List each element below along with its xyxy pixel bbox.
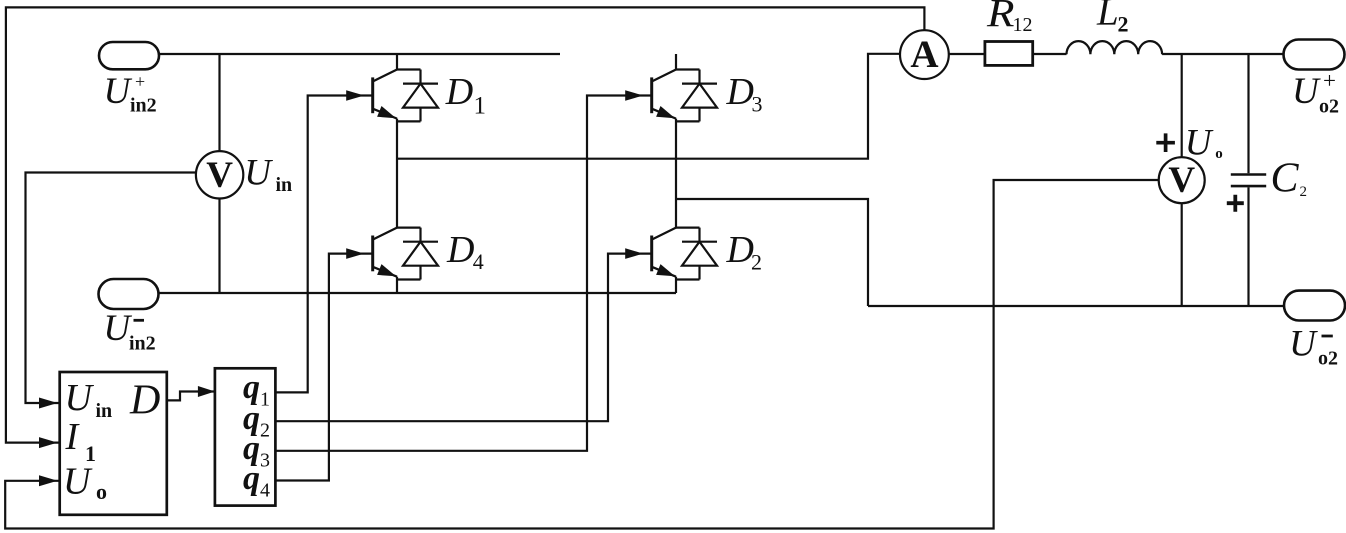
svg-text:o2: o2 <box>1319 96 1339 118</box>
svg-text:U: U <box>1289 324 1318 365</box>
arrow D input <box>198 386 215 397</box>
svg-text:in2: in2 <box>129 333 156 355</box>
svg-text:V: V <box>1168 160 1195 201</box>
wire D to PWM block <box>167 392 215 401</box>
label D3 <box>726 71 763 117</box>
wire voltmeter Uin tap lower <box>218 199 220 294</box>
svg-text:in: in <box>276 174 293 196</box>
wire voltmeter Uo tap upper <box>1181 54 1183 157</box>
inductor L2 <box>1067 41 1163 54</box>
resistor R12 <box>985 42 1033 66</box>
label U_in <box>244 153 292 196</box>
svg-text:4: 4 <box>260 479 270 501</box>
svg-text:U: U <box>1185 123 1214 164</box>
wire q1 to Q1 base <box>275 96 372 393</box>
svg-text:in2: in2 <box>130 95 157 117</box>
arrow q3 base <box>625 90 643 101</box>
capacitor C2 <box>1231 54 1266 306</box>
transistor Q3 <box>652 70 676 119</box>
wire right leg bottom <box>675 277 677 293</box>
svg-text:o2: o2 <box>1318 348 1338 370</box>
arrow q1 base <box>346 90 364 101</box>
arrow U_in input <box>39 398 58 409</box>
terminal U-o2 <box>1284 291 1345 321</box>
terminal U-in2 <box>99 279 159 309</box>
svg-text:12: 12 <box>1013 14 1033 36</box>
label plus capacitor <box>1227 195 1244 212</box>
svg-text:R: R <box>986 0 1015 35</box>
label q1 <box>243 369 270 411</box>
svg-text:U: U <box>63 460 93 502</box>
svg-text:2: 2 <box>260 419 270 441</box>
wire I1 feedback <box>6 7 925 442</box>
label D2 <box>726 229 763 274</box>
label U_o2+ <box>1292 68 1339 118</box>
svg-text:2: 2 <box>751 250 762 275</box>
wire q3 to Q3 base <box>275 96 651 451</box>
svg-text:V: V <box>206 155 233 196</box>
svg-text:U: U <box>1292 71 1321 112</box>
wire bridge lower output <box>676 199 868 306</box>
terminal U+o2 <box>1284 40 1345 70</box>
label U_o controller <box>63 460 107 504</box>
transistor Q1 <box>373 70 397 119</box>
wire q4 to Q4 base <box>275 254 372 481</box>
svg-text:A: A <box>910 33 938 76</box>
PWM block <box>215 368 276 505</box>
label U_in2+ <box>104 71 157 117</box>
svg-text:3: 3 <box>260 449 270 471</box>
label q4 <box>243 460 270 502</box>
diode D2 <box>676 228 717 280</box>
wire left leg bottom <box>396 277 398 293</box>
wire bottom rail <box>159 292 677 294</box>
label U_o2- <box>1289 324 1338 370</box>
svg-text:D: D <box>726 71 754 113</box>
label C_2 <box>1271 156 1308 202</box>
voltmeter V U_o <box>1159 157 1205 203</box>
svg-text:in: in <box>96 400 113 422</box>
svg-text:U: U <box>244 153 273 194</box>
label R_12 <box>986 0 1033 36</box>
wire voltmeter Uin tap upper <box>218 54 220 151</box>
label q2 <box>243 400 270 442</box>
wire U_in sense to controller <box>26 173 196 404</box>
wire q2 to Q2 base <box>275 254 651 422</box>
transistor Q4 <box>373 228 397 277</box>
wire U_o sense feedback <box>5 180 1159 529</box>
svg-text:o: o <box>96 479 107 504</box>
arrow U_o input <box>39 475 58 486</box>
svg-text:U: U <box>65 377 95 419</box>
wire resistor to inductor <box>1033 53 1067 55</box>
terminal U+in2 <box>99 42 159 69</box>
diode D1 <box>397 70 438 122</box>
label D1 <box>445 71 486 120</box>
wire right leg top <box>675 54 677 70</box>
wire bridge upper output <box>397 54 900 159</box>
label L_2 <box>1096 0 1129 37</box>
diode D4 <box>397 228 438 280</box>
svg-text:1: 1 <box>260 388 270 410</box>
label q3 <box>243 430 270 472</box>
arrow I1 input <box>39 437 58 448</box>
svg-text:L: L <box>1096 0 1119 34</box>
svg-text:o: o <box>1215 146 1223 162</box>
label plus Uo <box>1156 133 1175 152</box>
wire inductor to terminal <box>1162 53 1283 55</box>
svg-text:I: I <box>65 416 81 458</box>
label I_1 controller <box>65 416 97 466</box>
wire right leg middle <box>675 119 677 228</box>
svg-text:+: + <box>135 71 145 91</box>
ammeter A <box>900 30 949 79</box>
voltmeter V U_in <box>196 151 243 198</box>
arrow q4 base <box>346 248 364 259</box>
wire ammeter to resistor <box>949 53 985 55</box>
svg-text:D: D <box>726 229 754 271</box>
label U_in2- <box>103 308 155 355</box>
diode D3 <box>676 70 717 122</box>
label D4 <box>446 229 484 274</box>
wire voltmeter Uo tap lower <box>1181 203 1183 306</box>
wire bottom output rail <box>868 305 1284 307</box>
svg-text:q: q <box>243 460 260 497</box>
svg-text:2: 2 <box>1118 12 1129 37</box>
wire top rail <box>159 53 560 55</box>
controller block <box>60 372 167 515</box>
label U_in controller <box>65 377 113 422</box>
transistor Q2 <box>652 228 676 277</box>
svg-text:C: C <box>1271 156 1300 202</box>
wire left leg top <box>396 54 398 70</box>
svg-text:D: D <box>446 229 474 271</box>
svg-text:1: 1 <box>474 92 487 119</box>
svg-text:D: D <box>129 377 160 423</box>
svg-text:U: U <box>104 71 133 112</box>
wire left leg middle <box>396 119 398 228</box>
svg-text:2: 2 <box>1300 184 1308 200</box>
label U_o <box>1185 123 1223 164</box>
svg-text:4: 4 <box>473 249 484 274</box>
svg-text:3: 3 <box>752 92 763 117</box>
svg-text:+: + <box>1323 68 1336 93</box>
arrow q2 base <box>625 248 643 259</box>
svg-text:D: D <box>445 71 473 113</box>
